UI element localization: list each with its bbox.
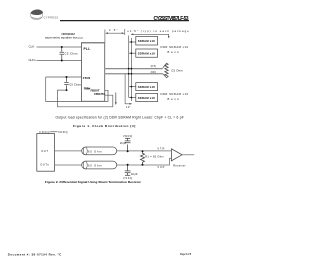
down arrow annotation <box>114 93 117 104</box>
wire FBOUTn loop <box>58 90 113 107</box>
leader line <box>78 37 83 40</box>
resistor C5 Ohm termination <box>163 63 168 78</box>
DUT box <box>37 134 55 172</box>
svg-text:asymmetric equalize bus: asymmetric equalize bus <box>45 35 78 39</box>
stub to SDRAM 4 <box>129 96 136 99</box>
stub to SDRAM 1 <box>129 41 136 44</box>
svg-text:CY2SSTV857LF-53: CY2SSTV857LF-53 <box>154 16 189 22</box>
dimension 2.5" <box>105 29 125 43</box>
wire VDDQ <box>50 130 57 133</box>
svg-text:1.2": 1.2" <box>126 106 131 109</box>
capacitor 10 pF to VDDQ <box>125 138 131 151</box>
svg-text:Figure 1. Clock Distribution [: Figure 1. Clock Distribution [4] <box>73 124 135 128</box>
clock driver U1 box <box>82 43 105 102</box>
header rule <box>60 20 189 21</box>
svg-text:Document #: 38-07154 Rev. *C: Document #: 38-07154 Rev. *C <box>8 253 62 257</box>
wire T2 to receiver <box>117 158 172 165</box>
bus vertical A <box>127 36 130 98</box>
junction dots on bus <box>128 41 132 98</box>
wire T1 to receiver <box>117 149 172 152</box>
junction dots <box>61 46 63 48</box>
clock trace CF <box>105 71 163 76</box>
wire CLK <box>37 46 82 49</box>
svg-text:Output load specification for: Output load specification for (2) DDR SD… <box>56 116 184 120</box>
wire receiver output <box>182 153 194 156</box>
svg-text:VSSQ: VSSQ <box>123 177 132 180</box>
stub to SDRAM 3 <box>129 85 136 88</box>
wire FBIN <box>46 76 82 79</box>
svg-text:VDDQ: VDDQ <box>123 135 132 138</box>
wire OUTn <box>55 163 83 166</box>
box top thick edge <box>82 40 105 45</box>
1.2" trace annotation <box>125 74 130 104</box>
svg-text:PLL: PLL <box>84 47 91 51</box>
SDRAM box 2 <box>136 49 158 57</box>
wire FBOUT loop <box>46 77 108 101</box>
svg-text:CLK: CLK <box>29 45 35 49</box>
svg-text:CLKn: CLKn <box>29 58 36 62</box>
transmission line T1 65 Ohm <box>82 147 117 155</box>
clock trace CT <box>105 66 163 71</box>
SDRAM box 4 <box>136 93 158 101</box>
receiver U2 <box>171 149 182 161</box>
SDRAM box 1 <box>136 37 158 46</box>
transmission line T2 65 Ohm <box>82 161 117 169</box>
svg-text:Figure 2. Differential Signal: Figure 2. Differential Signal Using Shun… <box>45 180 142 184</box>
stub to SDRAM 2 <box>129 52 136 55</box>
bus vertical B <box>130 38 133 101</box>
wire OUT <box>55 149 83 152</box>
capacitor C5 Cbus (input) <box>60 47 65 61</box>
SDRAM box 3 <box>136 83 158 91</box>
resistor R1 termination <box>141 151 145 165</box>
capacitor 10 pF to VSSQ <box>125 165 131 175</box>
capacitor C5 Cbus (feedback) <box>64 77 69 90</box>
wire CLKn <box>37 59 82 62</box>
Cypress logo <box>31 10 44 20</box>
